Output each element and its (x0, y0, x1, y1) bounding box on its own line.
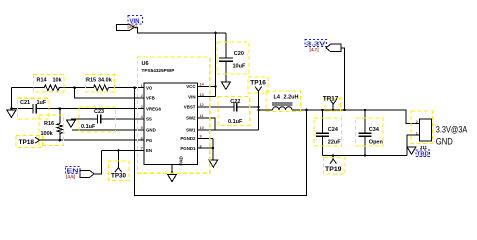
svg-text:TBD: TBD (417, 152, 429, 158)
svg-text:0.1uF: 0.1uF (228, 119, 243, 125)
junction TP17 on output rail (332, 109, 334, 111)
junction TP30 on EN (117, 149, 119, 151)
svg-text:11: 11 (200, 114, 204, 118)
ground PGND (209, 160, 218, 167)
port flag EN bottom left (80, 170, 94, 177)
svg-text:10k: 10k (53, 77, 63, 83)
highlight box C21 (17, 98, 49, 119)
svg-text:PAD: PAD (179, 155, 184, 165)
highlight box TP18 (16, 136, 43, 148)
svg-text:Open: Open (369, 139, 384, 145)
test point TP17 (330, 100, 337, 111)
svg-text:C24: C24 (328, 127, 339, 133)
svg-text:10: 10 (200, 126, 204, 130)
svg-text:10uF: 10uF (233, 63, 246, 69)
junction L4 at SW (257, 109, 259, 111)
svg-text:100k: 100k (41, 131, 54, 137)
wire left ground drop (10, 88, 12, 111)
svg-text:[4,7]: [4,7] (310, 47, 320, 52)
junction PAD ground (171, 171, 173, 173)
highlight box U6 (138, 57, 210, 173)
wire output rail (292, 110, 420, 124)
svg-text:VO: VO (146, 85, 153, 90)
junction VO sense tap (133, 86, 136, 89)
wire VCC/VIN vertical (215, 33, 217, 97)
wire PAD stub (171, 165, 173, 175)
svg-text:VREG6: VREG6 (146, 106, 161, 111)
highlight box TP16 (248, 77, 268, 93)
svg-text:U6: U6 (142, 61, 149, 67)
junction TP19 on ground rail (332, 154, 334, 156)
svg-text:R14: R14 (37, 77, 48, 83)
svg-text:8: 8 (200, 144, 202, 148)
test point TP30 (115, 150, 122, 172)
svg-text:R16: R16 (44, 121, 54, 127)
test point TP19 (330, 156, 337, 164)
highlight box C20 (217, 42, 249, 74)
highlight box R16 (39, 115, 64, 146)
svg-text:9: 9 (200, 135, 202, 139)
highlight box C23 (79, 107, 116, 132)
wire SW1 row (198, 129, 259, 131)
svg-text:EN: EN (146, 148, 152, 153)
highlight box J11 (411, 111, 433, 144)
svg-text:GND: GND (436, 136, 453, 146)
svg-text:1: 1 (416, 132, 418, 136)
junction C34 on ground rail (364, 154, 366, 156)
capacitor C24 (322, 110, 324, 133)
wire VBST row (198, 106, 234, 108)
wire PGND1 stub (198, 147, 214, 149)
port flag 3.3V top right (326, 44, 341, 51)
junction C34 on output rail (364, 109, 366, 111)
junction VO sense on output rail (305, 109, 308, 112)
net label box VIN (128, 16, 143, 25)
svg-text:12: 12 (200, 103, 204, 107)
test point TP16 (255, 87, 261, 92)
wire SS row (71, 118, 97, 120)
svg-text:TP16: TP16 (250, 81, 266, 87)
port flag VIN (117, 24, 135, 30)
wire GND row (72, 129, 144, 131)
test point TP18 (35, 137, 39, 143)
highlight box TP30 (109, 161, 130, 181)
junction C24 on output rail (321, 109, 323, 111)
svg-text:13: 13 (200, 93, 204, 97)
wire VIN flag tail to top rail (134, 27, 226, 33)
svg-text:0.1uF: 0.1uF (81, 124, 96, 130)
ground PAD (168, 174, 177, 181)
wire VO sense loop (135, 88, 307, 196)
junction VFB divider node (73, 86, 76, 89)
wire output ground rail (323, 155, 408, 157)
resistor R14 (44, 85, 59, 91)
svg-text:1uF: 1uF (37, 100, 47, 106)
svg-text:PG: PG (146, 138, 153, 143)
svg-text:C22: C22 (230, 99, 240, 105)
ground left (7, 110, 16, 117)
junction VCC stub (214, 85, 216, 87)
svg-text:7: 7 (141, 147, 143, 151)
svg-text:TP30: TP30 (111, 173, 127, 179)
highlight box R14 (34, 75, 65, 93)
junction R16 top on VREG6 (59, 107, 62, 110)
junction net flag on output rail (343, 109, 345, 111)
capacitor C23 (96, 114, 98, 123)
svg-text:34.0k: 34.0k (98, 77, 113, 83)
wire J11 pin1 (407, 135, 420, 155)
svg-text:PGND2: PGND2 (180, 136, 196, 141)
svg-text:3.3V@3A: 3.3V@3A (436, 125, 468, 135)
svg-text:SW2: SW2 (186, 116, 196, 121)
ground J11 (407, 147, 416, 154)
net label box 3.3V (305, 40, 327, 47)
svg-text:2.2uH: 2.2uH (284, 95, 299, 101)
svg-text:6: 6 (141, 136, 143, 140)
svg-text:C21: C21 (20, 100, 30, 106)
junction C21/ground node (10, 107, 12, 109)
svg-text:[4,5]: [4,5] (66, 174, 76, 179)
wire SW2 stub (198, 118, 216, 130)
svg-text:C23: C23 (94, 109, 104, 115)
highlight box C22 (218, 97, 250, 126)
svg-text:[2,3]: [2,3] (128, 24, 138, 29)
highlight box C34 (356, 118, 384, 146)
svg-text:SS: SS (146, 117, 152, 122)
wire VO row (11, 87, 44, 89)
wire PG row (40, 139, 144, 141)
svg-text:2: 2 (416, 120, 418, 124)
svg-text:TPS54325PWP: TPS54325PWP (142, 68, 175, 73)
svg-text:J11: J11 (420, 145, 428, 150)
component texts (19, 19, 468, 180)
op-amp U6 body (144, 83, 198, 165)
highlight box R15 (86, 75, 115, 93)
junction PGND1 (212, 147, 214, 149)
svg-text:3: 3 (141, 105, 143, 109)
capacitor C22 (233, 102, 235, 111)
resistor R16 (59, 109, 61, 124)
wire VREG6 row (11, 108, 32, 110)
svg-text:R15: R15 (86, 77, 96, 83)
capacitor C20 (225, 33, 227, 57)
junction C22 at SW (257, 106, 259, 108)
highlight box TP17 (325, 99, 341, 112)
connector J11 (420, 119, 432, 141)
wire VCC stub pin14 (198, 86, 216, 88)
svg-text:C34: C34 (369, 127, 380, 133)
wire VIN stub pin13 (198, 96, 216, 98)
inductor L4 (258, 109, 272, 111)
label box TBD (416, 150, 430, 157)
ground C20 (221, 82, 230, 89)
svg-text:TP18: TP18 (19, 140, 35, 146)
junction VIN rail (214, 32, 217, 35)
highlight box C24 (314, 118, 342, 146)
svg-text:1: 1 (141, 84, 143, 88)
svg-text:5: 5 (141, 126, 143, 130)
svg-text:TP19: TP19 (325, 167, 342, 173)
wire PGND2 stub (198, 137, 214, 139)
svg-text:C20: C20 (234, 51, 244, 57)
wire VFB drop (75, 88, 144, 98)
svg-text:VCC: VCC (186, 84, 196, 89)
ground C23 (67, 120, 76, 127)
wire SW node vertical (257, 91, 259, 130)
svg-text:VIN: VIN (188, 94, 195, 99)
wire flag 3.3V drop (341, 48, 345, 110)
svg-text:VBST: VBST (184, 105, 196, 110)
svg-text:SW1: SW1 (186, 127, 196, 132)
svg-text:VFB: VFB (146, 96, 155, 101)
svg-text:PGND1: PGND1 (180, 146, 196, 151)
wire EN row (102, 149, 145, 151)
highlight box L4 (266, 91, 301, 112)
svg-text:GND: GND (146, 128, 156, 133)
svg-text:L4: L4 (274, 95, 281, 101)
svg-text:TP17: TP17 (323, 96, 339, 102)
svg-text:22uF: 22uF (328, 139, 341, 145)
highlight box TP19 (324, 158, 346, 175)
resistor R15 (93, 85, 108, 91)
capacitor C21 (32, 104, 34, 113)
svg-text:2: 2 (141, 94, 143, 98)
net label box EN (66, 167, 81, 174)
junction R16 bottom on PG (59, 139, 62, 142)
capacitor C34 (364, 110, 366, 133)
